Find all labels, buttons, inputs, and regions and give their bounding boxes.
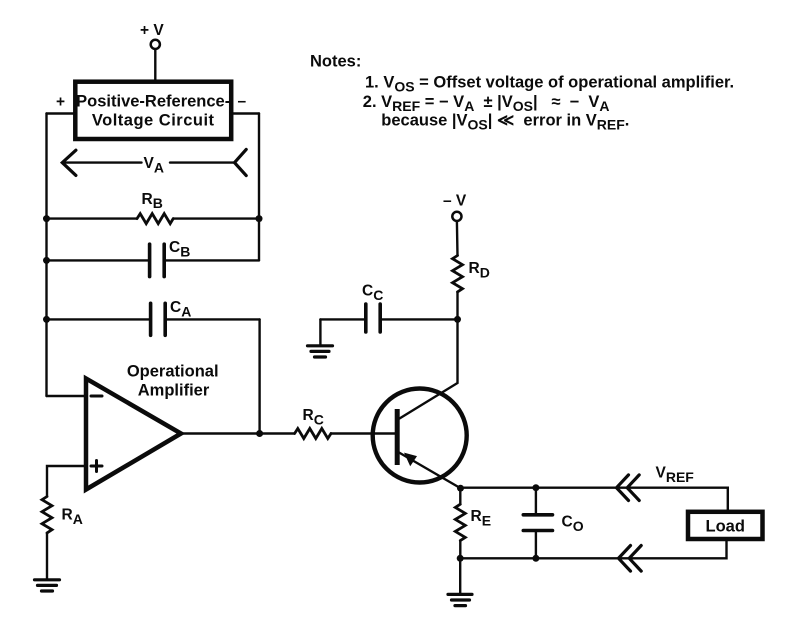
wire RE junction down to ground <box>459 558 461 593</box>
wire op-amp output <box>181 432 295 434</box>
node dot CO bottom <box>532 555 539 562</box>
node dot output <box>256 430 263 437</box>
node dot left CB <box>43 257 50 264</box>
resistor RB <box>47 191 260 224</box>
svg-text:– V: – V <box>443 193 467 210</box>
wire CA right end down to op-amp output node <box>258 319 260 433</box>
ground RA <box>35 580 60 591</box>
svg-text:Load: Load <box>705 518 744 536</box>
wire right rail down to CB <box>258 114 260 261</box>
wire from box right to right rail <box>232 112 260 114</box>
svg-text:Positive-Reference-: Positive-Reference- <box>76 93 230 111</box>
power terminal +V <box>140 22 164 81</box>
svg-text:Amplifier: Amplifier <box>138 382 210 400</box>
wire top output rail to load <box>461 488 728 511</box>
resistor RD <box>453 256 490 320</box>
svg-text:Voltage Circuit: Voltage Circuit <box>92 112 215 130</box>
box U1 Positive-Reference-Voltage Circuit <box>75 82 231 139</box>
node dot CC junction <box>454 316 461 323</box>
svg-text:+ V: + V <box>140 22 164 39</box>
capacitor CO <box>523 488 583 559</box>
transistor Q1 <box>373 319 467 488</box>
node dot CO top <box>532 484 539 491</box>
svg-text:–: – <box>238 93 247 110</box>
capacitor CB <box>47 239 260 276</box>
notes text <box>310 53 734 133</box>
op-amp U2 triangle <box>86 363 219 490</box>
ground CC <box>308 346 333 357</box>
resistor RE <box>455 488 491 558</box>
resistor RA <box>42 497 83 579</box>
svg-text:Operational: Operational <box>127 363 219 381</box>
capacitor CA <box>47 299 260 335</box>
node dot left CA <box>43 316 50 323</box>
wire bottom rail to load <box>460 539 726 558</box>
load box <box>688 512 763 539</box>
wire left rail down to op-amp minus input <box>45 114 47 397</box>
resistor RC <box>295 407 396 439</box>
dimension arrow VA <box>62 149 246 175</box>
svg-text:+: + <box>56 94 65 111</box>
wire CC left end down to ground <box>319 319 321 344</box>
node dot right RB <box>256 215 263 222</box>
break chevrons bottom wire <box>619 546 642 572</box>
wire op-amp plus input <box>47 466 86 497</box>
break chevrons top wire <box>617 475 640 501</box>
capacitor CC <box>320 283 457 333</box>
power terminal -V <box>443 193 467 256</box>
svg-text:Notes:: Notes: <box>310 53 361 71</box>
wire from box left to left rail <box>47 112 76 114</box>
node dot left RB <box>43 215 50 222</box>
node dot RE bottom junction <box>457 555 464 562</box>
node dot emitter junction <box>457 485 464 492</box>
ground RE <box>448 594 472 605</box>
wire op-amp minus input <box>47 395 87 397</box>
